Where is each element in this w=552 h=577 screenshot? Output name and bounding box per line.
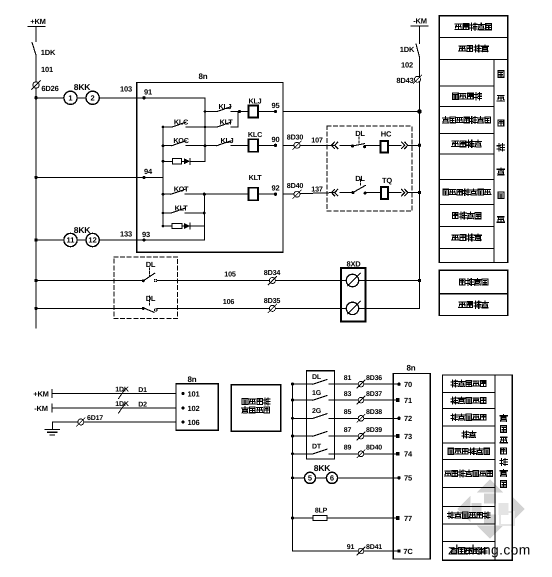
wire 107 HC branch	[283, 144, 334, 146]
lamp TD (open indication)	[346, 302, 358, 314]
svg-text:-KM: -KM	[413, 17, 427, 26]
terminal 92	[274, 193, 277, 196]
lamp HD (closed indication)	[346, 274, 358, 286]
svg-text:11: 11	[67, 236, 75, 245]
svg-text:KOC: KOC	[173, 136, 188, 145]
contact KLT	[205, 126, 217, 128]
row open position indication	[439, 294, 508, 316]
svg-text:1DK: 1DK	[115, 401, 129, 408]
svg-text:105: 105	[224, 269, 236, 278]
svg-text:6: 6	[330, 474, 334, 483]
plug chevron right TQ	[402, 189, 405, 195]
svg-text:8D35: 8D35	[264, 296, 281, 305]
input function table	[443, 375, 495, 560]
svg-text:KLC: KLC	[174, 118, 188, 127]
device power box 8n	[176, 384, 218, 431]
side column switch input circuit	[495, 375, 512, 560]
row common input	[451, 547, 458, 553]
svg-text:8D34: 8D34	[264, 268, 281, 277]
svg-text:DL: DL	[355, 174, 365, 183]
switch 1DK right	[416, 44, 420, 57]
contact KLJ lower	[205, 145, 217, 147]
aux contact box	[307, 371, 335, 459]
svg-text:+KM: +KM	[30, 17, 45, 26]
svg-text:KLJ: KLJ	[219, 102, 232, 111]
svg-text:KLC: KLC	[248, 130, 262, 139]
contact KLC	[163, 126, 172, 128]
wire 137 TQ branch	[283, 193, 334, 195]
svg-text:103: 103	[120, 85, 132, 94]
row trip hold	[453, 213, 459, 219]
svg-text:91: 91	[347, 544, 355, 551]
aux contact DT / wire 89 / terminal 74	[293, 453, 314, 455]
svg-text:DT: DT	[312, 444, 322, 451]
contact KOT	[163, 193, 171, 195]
row auto switch	[459, 46, 466, 51]
svg-text:1DK: 1DK	[41, 48, 56, 57]
svg-text:95: 95	[272, 101, 280, 110]
inner rail A	[162, 127, 164, 226]
svg-text:8KK: 8KK	[314, 463, 331, 473]
watermark zhulong logo	[457, 479, 525, 539]
svg-text:8D37: 8D37	[366, 391, 382, 398]
contact KOC	[163, 145, 172, 147]
svg-text:102: 102	[188, 404, 200, 413]
wire 133	[99, 239, 136, 241]
row closed position indication	[439, 270, 508, 294]
svg-text:70: 70	[404, 380, 412, 389]
svg-text:8KK: 8KK	[74, 82, 91, 92]
svg-text:7C: 7C	[403, 547, 413, 556]
closing coil HC	[365, 144, 381, 146]
svg-text:KLJ: KLJ	[221, 136, 234, 145]
svg-text:2G: 2G	[312, 408, 322, 415]
wire up to KLJ rung	[237, 112, 239, 128]
switch 8KK contacts 5-6	[293, 477, 305, 479]
row anti-pump and close hold	[442, 117, 449, 123]
svg-text:73: 73	[404, 432, 412, 441]
aux contact 1G / wire 83 / terminal 71	[293, 399, 314, 401]
aux contact 2G / wire 85 / terminal 72	[293, 417, 314, 419]
svg-text:8D40: 8D40	[366, 445, 382, 452]
wire lamp branch 1	[36, 280, 143, 282]
wire 105	[157, 280, 346, 282]
wire 106	[157, 307, 346, 309]
svg-text:DL: DL	[355, 129, 365, 138]
svg-text:KLJ: KLJ	[249, 97, 262, 106]
row spare	[462, 431, 469, 438]
svg-text:8n: 8n	[407, 364, 416, 373]
svg-text:91: 91	[144, 88, 152, 97]
svg-text:137: 137	[311, 185, 323, 194]
wire lamp branch 2	[36, 307, 143, 309]
svg-text:DL: DL	[312, 374, 322, 381]
terminal 102	[181, 406, 184, 409]
svg-text:8D40: 8D40	[287, 181, 304, 190]
breaker aux contact DL (HC)	[340, 144, 353, 146]
svg-text:KOT: KOT	[174, 185, 189, 194]
wire T94 to rail A	[137, 176, 163, 178]
svg-text:101: 101	[41, 65, 53, 74]
svg-text:77: 77	[404, 514, 412, 523]
svg-text:6D17: 6D17	[87, 415, 103, 422]
tripping coil TQ	[365, 192, 381, 194]
wire D2	[52, 407, 176, 409]
dashed breaker box	[327, 126, 412, 211]
svg-text:107: 107	[311, 136, 323, 145]
svg-text:75: 75	[404, 474, 412, 483]
terminal 94	[142, 176, 145, 179]
ground symbol	[45, 429, 59, 431]
switch 8KK contact 2	[77, 97, 86, 99]
svg-text:KLT: KLT	[175, 204, 189, 213]
diode D lower	[182, 225, 184, 227]
svg-text:-KM: -KM	[34, 404, 48, 413]
svg-text:8n: 8n	[199, 72, 208, 81]
diode D upper	[182, 160, 184, 162]
svg-text:94: 94	[144, 167, 153, 176]
left bus wire lower	[35, 88, 37, 328]
plug chevron left HC	[332, 142, 335, 148]
svg-text:89: 89	[344, 445, 352, 452]
svg-text:2: 2	[91, 93, 95, 102]
wire to switch 8KK contacts 1-2	[36, 97, 64, 99]
row knife switch 1 position	[451, 397, 458, 404]
inner rail C	[203, 194, 205, 240]
switch 8KK contact 12	[77, 239, 86, 241]
svg-text:DL: DL	[146, 294, 156, 303]
svg-text:KLT: KLT	[249, 173, 263, 182]
switch 8KK contact 11	[64, 233, 77, 246]
protection working power box	[231, 385, 281, 431]
svg-text:90: 90	[272, 135, 280, 144]
svg-text:8D38: 8D38	[366, 409, 382, 416]
svg-text:85: 85	[344, 409, 352, 416]
svg-text:72: 72	[404, 414, 412, 423]
contact KLJ	[205, 111, 217, 113]
contact KLT lower	[163, 212, 171, 214]
function table (control circuit)	[439, 16, 508, 60]
aux contact DL / wire 81 / terminal 70	[293, 383, 314, 385]
plug chevron left TQ	[332, 189, 335, 195]
terminal 106	[181, 420, 184, 423]
svg-text:1: 1	[68, 93, 72, 102]
svg-text:106: 106	[223, 297, 235, 306]
row protection trip enable	[447, 512, 454, 519]
row breaker position	[451, 380, 458, 387]
plug chevron right HC	[402, 142, 405, 148]
breaker aux contact DL (lamp1)	[142, 279, 145, 282]
terminal 8D43	[419, 57, 421, 76]
svg-text:74: 74	[404, 450, 413, 459]
svg-text:1G: 1G	[312, 390, 322, 397]
wire to coil KLT	[204, 193, 248, 195]
input rail	[292, 384, 294, 551]
row manual trip	[452, 235, 459, 240]
svg-text:6D26: 6D26	[41, 84, 58, 93]
svg-text:133: 133	[120, 230, 132, 239]
left bus wire	[35, 27, 37, 42]
svg-text:8LP: 8LP	[315, 508, 328, 515]
resistor R upper	[163, 160, 173, 162]
switch 1DK left	[32, 43, 36, 56]
wire D1	[52, 393, 176, 395]
breaker aux contact DL (lamp2)	[142, 307, 145, 310]
svg-text:KLT: KLT	[220, 118, 234, 127]
switch 8KK contact 1	[64, 91, 77, 104]
terminal 6D17	[78, 419, 84, 425]
wire 91 common	[293, 550, 398, 552]
relay coil KLT	[249, 188, 259, 201]
svg-text:87: 87	[344, 427, 352, 434]
terminal 91	[142, 96, 145, 99]
svg-text:92: 92	[272, 184, 280, 193]
row control bus	[455, 24, 462, 29]
dashed DL aux box	[114, 257, 178, 319]
terminal 6D26	[35, 55, 37, 82]
aux contact spare / wire 87 / terminal 73	[293, 435, 314, 437]
svg-text:106: 106	[188, 418, 200, 427]
wire bus to T94	[36, 176, 137, 178]
relay coil KLJ	[240, 111, 249, 113]
svg-text:8n: 8n	[188, 375, 197, 384]
row knife switch 2 position	[451, 414, 458, 421]
svg-text:12: 12	[88, 236, 96, 245]
row protection and remote trip	[443, 189, 449, 195]
svg-text:8KK: 8KK	[74, 225, 91, 235]
svg-text:8D36: 8D36	[366, 375, 382, 382]
svg-text:zhulong.com: zhulong.com	[448, 543, 531, 558]
svg-text:D1: D1	[138, 387, 147, 394]
resistor R lower	[163, 225, 172, 227]
svg-text:93: 93	[142, 230, 150, 239]
svg-text:8D39: 8D39	[366, 427, 382, 434]
terminal 95	[274, 110, 277, 113]
svg-text:1DK: 1DK	[115, 386, 129, 393]
wire 95 to -KM bus	[283, 111, 420, 113]
wire to 8KK contacts 11-12	[36, 239, 64, 241]
svg-text:HC: HC	[381, 130, 392, 139]
svg-text:D2: D2	[138, 402, 147, 409]
breaker aux contact DL (TQ)	[340, 192, 353, 194]
input device box 8n	[393, 374, 430, 559]
wire T93 to rail C	[137, 239, 205, 241]
svg-text:DL: DL	[146, 260, 156, 269]
wire lamp1 to bus	[359, 280, 420, 282]
svg-text:8D41: 8D41	[366, 544, 382, 551]
wire lamp2 to bus	[359, 307, 420, 309]
inner rail B	[204, 98, 206, 162]
right bus wire	[419, 26, 421, 44]
row allow remote trip close	[445, 471, 452, 476]
link 8LP	[293, 517, 398, 519]
svg-text:83: 83	[344, 391, 352, 398]
svg-text:5: 5	[308, 474, 312, 483]
svg-text:+KM: +KM	[33, 390, 48, 399]
svg-text:8D30: 8D30	[287, 133, 304, 142]
row manual close	[452, 93, 458, 99]
svg-text:71: 71	[404, 396, 412, 405]
svg-text:101: 101	[188, 389, 200, 398]
svg-text:81: 81	[344, 375, 352, 382]
protection device box 8n	[137, 83, 283, 253]
row remote close	[452, 141, 459, 146]
terminal 101	[181, 392, 184, 395]
svg-text:1DK: 1DK	[400, 45, 415, 54]
svg-text:TQ: TQ	[382, 176, 392, 185]
wire 103	[99, 97, 136, 99]
ground wire	[52, 421, 176, 423]
svg-text:8D43: 8D43	[396, 76, 413, 85]
row spring charge state	[448, 448, 454, 454]
side column breaker control circuit	[494, 60, 508, 263]
terminal 90	[274, 144, 277, 147]
svg-text:102: 102	[401, 61, 413, 70]
wire T91 to rail B	[137, 97, 205, 99]
relay coil KLC	[249, 139, 259, 152]
terminal 93	[142, 238, 145, 241]
right bus lower	[419, 83, 421, 309]
